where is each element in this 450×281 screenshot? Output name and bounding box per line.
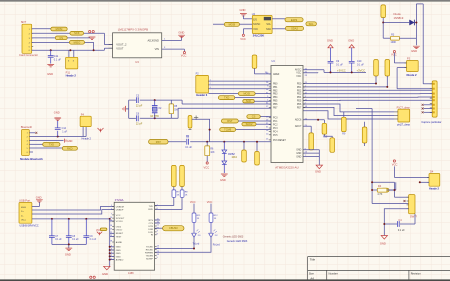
resistor RN B bbox=[343, 112, 345, 117]
svg-text:GND: GND bbox=[67, 140, 73, 143]
resistor RN D bbox=[309, 133, 314, 150]
svg-text:GND: GND bbox=[54, 110, 60, 114]
wire stepped rows to pin27 header bbox=[303, 104, 394, 112]
svg-text:4.7K: 4.7K bbox=[377, 193, 382, 196]
svg-text:PB3: PB3 bbox=[273, 94, 278, 96]
svg-text:AREF: AREF bbox=[273, 73, 280, 76]
svg-text:PC4: PC4 bbox=[273, 131, 278, 133]
connector pin pads bbox=[433, 83, 435, 85]
svg-text:SCK: SCK bbox=[246, 99, 252, 103]
connector capture header bbox=[432, 81, 437, 117]
diode D3 dual bbox=[223, 142, 225, 150]
svg-text:RXD: RXD bbox=[67, 146, 73, 150]
diode D5 bbox=[410, 20, 415, 25]
wire AVCC to rail bbox=[303, 69, 324, 71]
svg-text:VIN: VIN bbox=[155, 47, 159, 51]
svg-text:PD4: PD4 bbox=[297, 97, 302, 99]
svg-text:PD7: PD7 bbox=[297, 108, 302, 110]
wire LED2 return bbox=[155, 238, 211, 253]
svg-text:PB1: PB1 bbox=[273, 87, 278, 89]
wire MOSI net bbox=[32, 28, 67, 30]
svg-text:SDA: SDA bbox=[266, 28, 271, 31]
connector SW1 pushbutton bbox=[409, 195, 415, 214]
svg-text:MOSI: MOSI bbox=[229, 22, 236, 26]
svg-text:RTS: RTS bbox=[149, 220, 154, 222]
svg-text:DCD: DCD bbox=[148, 232, 153, 234]
port U2 right top bbox=[285, 18, 303, 22]
svg-text:PC1: PC1 bbox=[273, 121, 278, 123]
wire USB D- bbox=[32, 207, 114, 211]
svg-text:SLEEP: SLEEP bbox=[146, 258, 154, 260]
port on U2 left bbox=[224, 22, 239, 26]
resistor pullup reset 1 bbox=[243, 142, 245, 150]
wire to U2 NC/SC bbox=[213, 23, 224, 25]
power VCC at U2 bbox=[243, 28, 252, 30]
port SCK2 near MCU bbox=[242, 122, 256, 126]
svg-text:SCK2: SCK2 bbox=[246, 122, 253, 126]
svg-text:GND: GND bbox=[116, 253, 121, 255]
resistor R8 blue bbox=[180, 190, 184, 197]
wire MISO net bbox=[32, 41, 94, 43]
wire reset net bbox=[168, 141, 186, 143]
svg-text:Caprure particular: Caprure particular bbox=[421, 121, 441, 124]
wire U2 SDA net bbox=[272, 28, 285, 30]
ground arrow below FT232 bbox=[104, 266, 110, 270]
svg-text:DSR: DSR bbox=[148, 229, 153, 231]
resistor RN A bbox=[322, 123, 327, 134]
svg-text:16 MHz: 16 MHz bbox=[150, 115, 159, 118]
svg-text:GND: GND bbox=[178, 30, 184, 34]
wire CS net bbox=[32, 37, 90, 39]
wire XTAL2 to MCU bbox=[177, 108, 179, 118]
wire USB shield pin bbox=[32, 206, 40, 208]
capacitor C6b 0.1uF bbox=[51, 219, 53, 236]
svg-text:VCCIO: VCCIO bbox=[116, 221, 123, 223]
header P3 Diode 2 bbox=[407, 61, 419, 72]
svg-text:SD?: SD? bbox=[21, 20, 27, 24]
svg-text:10K2: 10K2 bbox=[232, 157, 238, 159]
wires header3 to MCU bbox=[208, 80, 271, 82]
port left of switch area bbox=[381, 188, 389, 192]
capacitor C11 bbox=[50, 50, 52, 55]
ground for C11 bbox=[47, 65, 54, 67]
port TCM6 near MCU bbox=[220, 128, 236, 132]
port MOSI near MCU bbox=[208, 93, 238, 95]
svg-text:ADC7: ADC7 bbox=[295, 125, 302, 128]
wire connector pin1 from diode bbox=[423, 83, 432, 85]
capacitor C7b 0.1uF bbox=[68, 219, 70, 236]
power antenna symbol bbox=[98, 128, 104, 132]
ground below C4 bbox=[383, 224, 385, 236]
svg-text:Number: Number bbox=[329, 272, 338, 276]
svg-text:VCC: VCC bbox=[392, 162, 398, 166]
svg-text:TXD: TXD bbox=[149, 206, 154, 208]
svg-text:TxLed: TxLed bbox=[193, 242, 200, 245]
svg-text:22 pF: 22 pF bbox=[136, 104, 143, 107]
svg-text:PB6: PB6 bbox=[273, 104, 278, 106]
svg-text:P3: P3 bbox=[407, 57, 411, 61]
power VCC at Diode2 header bbox=[393, 51, 395, 53]
LED D2 bbox=[210, 222, 212, 233]
svg-text:0.1 uF: 0.1 uF bbox=[336, 64, 343, 67]
wire LED1 return bbox=[155, 238, 194, 249]
port MISO bbox=[69, 41, 84, 45]
crystal X2 16MHz bbox=[154, 100, 156, 105]
junction dots crystal bbox=[154, 99, 156, 101]
IC U4 ATMEGA3220-AU bbox=[271, 66, 303, 163]
svg-text:USBDP: USBDP bbox=[116, 210, 124, 212]
svg-text:PC0: PC0 bbox=[273, 118, 278, 120]
port SCL small bbox=[306, 22, 317, 26]
wire XTAL1 to MCU bbox=[181, 100, 183, 104]
svg-text:PD0: PD0 bbox=[297, 83, 302, 85]
wire SCK net bbox=[32, 32, 105, 34]
svg-text:0.1 uF: 0.1 uF bbox=[55, 239, 62, 241]
wire VBUS rail bbox=[32, 218, 110, 220]
svg-text:FT232L: FT232L bbox=[115, 198, 125, 202]
svg-text:ADC6: ADC6 bbox=[295, 119, 302, 122]
svg-text:PD2: PD2 bbox=[297, 90, 302, 92]
svg-text:VOUT: VOUT bbox=[116, 47, 124, 51]
power VCC below R6 bbox=[206, 156, 208, 162]
resistor R3 100K bbox=[391, 36, 400, 40]
resistor tall yellow R8 bbox=[180, 165, 185, 186]
ground GND below diode bbox=[413, 46, 420, 48]
wire U2 WP net bbox=[272, 18, 285, 20]
svg-text:PC2: PC2 bbox=[273, 125, 278, 127]
port U2 right bottom bbox=[285, 26, 303, 30]
svg-text:PD3: PD3 bbox=[297, 94, 302, 96]
resistor R4 bbox=[377, 188, 387, 192]
svg-text:RESET: RESET bbox=[116, 233, 124, 235]
svg-text:0.1 uF: 0.1 uF bbox=[398, 229, 405, 232]
port CBUS bbox=[155, 227, 163, 229]
svg-text:GND: GND bbox=[380, 242, 386, 246]
svg-text:P1C?_deep: P1C?_deep bbox=[397, 106, 411, 109]
wire switch top net bbox=[372, 181, 394, 183]
svg-text:Generic LED 0603: Generic LED 0603 bbox=[227, 240, 248, 243]
svg-text:PB0: PB0 bbox=[273, 83, 278, 85]
svg-text:USB Port: USB Port bbox=[19, 199, 30, 203]
wire R3 branch bbox=[382, 23, 384, 39]
svg-text:CTS: CTS bbox=[149, 223, 154, 225]
cross mark bbox=[194, 116, 198, 120]
svg-text:22 pF: 22 pF bbox=[136, 122, 143, 125]
svg-text:Size: Size bbox=[309, 272, 315, 276]
svg-text:RST: RST bbox=[156, 140, 162, 144]
resistor pullup reset 2 bbox=[256, 142, 258, 152]
small port left of FT232 bbox=[100, 228, 107, 231]
wire bluetooth pin4 bbox=[29, 143, 42, 145]
capacitor C5 0.1uF bbox=[187, 139, 189, 145]
svg-text:+3VCC: +3VCC bbox=[357, 69, 366, 73]
voltage regulator U3 LM1117MPX-3.3/NOPB bbox=[113, 33, 162, 58]
port SCK near MCU bbox=[243, 100, 255, 103]
wire PD bus rows right bbox=[303, 83, 376, 85]
svg-text:VCC: VCC bbox=[240, 37, 246, 41]
svg-text:DTR: DTR bbox=[149, 226, 154, 228]
svg-text:TXLED: TXLED bbox=[146, 247, 153, 249]
svg-text:0.1 uF: 0.1 uF bbox=[357, 64, 364, 67]
port CS near MCU bbox=[247, 115, 260, 119]
svg-text:NC/SC: NC/SC bbox=[253, 24, 260, 26]
svg-text:0.1 uF: 0.1 uF bbox=[72, 239, 79, 241]
ground left of crystal bbox=[126, 108, 129, 110]
svg-text:VCC: VCC bbox=[204, 166, 210, 170]
svg-text:GND: GND bbox=[296, 153, 301, 155]
ground GND below MCU bbox=[316, 165, 322, 169]
svg-text:1N5819: 1N5819 bbox=[394, 16, 404, 20]
port CS bbox=[55, 36, 67, 40]
svg-text:SCK: SCK bbox=[74, 31, 80, 35]
wire MCU GND pins bbox=[303, 149, 319, 151]
svg-text:USBDM: USBDM bbox=[116, 206, 124, 208]
svg-text:PC6 RESET: PC6 RESET bbox=[273, 140, 286, 142]
resistor R5 bbox=[169, 104, 173, 114]
svg-text:GND: GND bbox=[327, 38, 333, 42]
svg-text:PB7: PB7 bbox=[273, 108, 278, 110]
wire VIN rail bbox=[32, 49, 105, 51]
svg-text:PD6: PD6 bbox=[297, 104, 302, 106]
header P11 Header 2 bbox=[68, 50, 70, 57]
resistor R11 blue bbox=[192, 213, 196, 222]
wire USB D+ bbox=[32, 210, 114, 214]
svg-text:PC3: PC3 bbox=[273, 128, 278, 130]
wire bluetooth pin2 to header bbox=[29, 136, 86, 138]
svg-text:D4: D4 bbox=[430, 169, 434, 173]
wire ADJ/GND pin 1 bbox=[162, 39, 182, 41]
wire Diode2 pin2 bbox=[397, 67, 406, 69]
red circles bottom bbox=[90, 276, 92, 278]
svg-text:GND: GND bbox=[220, 178, 226, 182]
svg-text:Heade 2: Heade 2 bbox=[66, 74, 77, 78]
svg-text:LM1117MPX-3.3/NOPB: LM1117MPX-3.3/NOPB bbox=[118, 27, 148, 31]
IC U2 24LC256 bbox=[252, 16, 272, 34]
wire FT232 RXD to R8 bbox=[155, 197, 182, 209]
svg-text:MOSI: MOSI bbox=[56, 27, 63, 31]
svg-text:CS: CS bbox=[252, 115, 256, 119]
wire cap ground rail bbox=[52, 243, 86, 245]
svg-text:CS: CS bbox=[59, 36, 63, 40]
svg-text:U3: U3 bbox=[135, 60, 139, 64]
svg-text:Diode 2: Diode 2 bbox=[407, 73, 418, 77]
svg-text:VCC: VCC bbox=[253, 29, 258, 31]
svg-text:P4: P4 bbox=[81, 112, 85, 116]
ground below D3 bbox=[221, 174, 228, 176]
svg-text:PD1: PD1 bbox=[297, 87, 302, 89]
resistor RN C bbox=[324, 134, 332, 138]
svg-text:AGND: AGND bbox=[116, 241, 123, 244]
svg-text:SDA2: SDA2 bbox=[291, 26, 298, 30]
svg-text:VCC: VCC bbox=[190, 200, 196, 204]
port MOSI bbox=[51, 27, 67, 31]
svg-text:MMBZ: MMBZ bbox=[228, 154, 235, 156]
stub bluetooth pin6 bbox=[29, 151, 33, 153]
svg-text:TXD: TXD bbox=[49, 142, 54, 146]
svg-text:PD5: PD5 bbox=[297, 101, 302, 103]
resistor R pullup 2 bbox=[385, 60, 390, 77]
svg-text:R10: R10 bbox=[323, 137, 328, 139]
svg-text:CBUS3: CBUS3 bbox=[169, 226, 178, 230]
svg-text:4B-B: 4B-B bbox=[21, 207, 26, 209]
svg-text:ATMEGA3220-AU: ATMEGA3220-AU bbox=[275, 166, 298, 170]
svg-text:PWREN: PWREN bbox=[145, 252, 154, 254]
svg-text:E2P2: E2P2 bbox=[291, 18, 298, 22]
port TX0 bbox=[218, 96, 234, 100]
capacitor C6 22pF bbox=[129, 117, 136, 119]
wire bluetooth pin5 bbox=[29, 147, 62, 149]
svg-text:TXDEN: TXDEN bbox=[146, 255, 154, 257]
bottom window edge bbox=[0, 279, 450, 281]
svg-text:RXD: RXD bbox=[148, 209, 153, 211]
svg-text:0.1 uF: 0.1 uF bbox=[185, 146, 192, 149]
svg-text:E/S: E/S bbox=[253, 20, 257, 22]
svg-text:GND: GND bbox=[47, 72, 53, 76]
svg-text:GND: GND bbox=[116, 247, 121, 249]
svg-text:100K: 100K bbox=[391, 41, 397, 44]
resistor reset pullup near crystal bbox=[188, 116, 192, 129]
port RST reset circuit bbox=[149, 140, 169, 145]
svg-text:TEST: TEST bbox=[116, 236, 122, 238]
svg-text:Bluetooth: Bluetooth bbox=[21, 125, 33, 129]
wire ADC6 bbox=[303, 119, 324, 121]
no-connect stubs on connector bbox=[424, 104, 433, 106]
svg-text:TXD: TXD bbox=[224, 96, 229, 100]
wire from pullup down to reset net bbox=[192, 119, 210, 142]
svg-text:GND: GND bbox=[240, 8, 246, 12]
svg-text:SCL: SCL bbox=[266, 24, 271, 26]
wire D4 pin2 bbox=[420, 181, 429, 183]
wire FT232 TXD to R7 bbox=[155, 197, 174, 205]
wire crystal left vertical bbox=[128, 100, 130, 118]
svg-text:MISO: MISO bbox=[74, 40, 81, 44]
svg-text:GND: GND bbox=[116, 256, 121, 258]
svg-text:Heade 2: Heade 2 bbox=[82, 138, 92, 141]
svg-text:Revision: Revision bbox=[411, 272, 422, 276]
wire ADC7 bbox=[303, 125, 311, 127]
svg-text:pin27_deep: pin27_deep bbox=[397, 124, 411, 127]
svg-text:GND: GND bbox=[102, 272, 108, 276]
port SCK bbox=[70, 31, 84, 35]
header P4 Header 2 bluetooth bbox=[80, 116, 91, 126]
wire switch pin4 to cap bbox=[384, 209, 408, 224]
header pin27_deep bbox=[398, 109, 410, 122]
port RST near MCU bbox=[221, 119, 238, 123]
resistor R1 vertical bbox=[381, 5, 386, 18]
svg-text:PB2: PB2 bbox=[273, 90, 278, 92]
svg-text:0.1 uF: 0.1 uF bbox=[54, 59, 62, 62]
svg-text:AGND2: AGND2 bbox=[116, 259, 124, 262]
ground bus left of FT232 bbox=[109, 219, 111, 266]
svg-text:GND: GND bbox=[65, 252, 71, 256]
svg-text:SCL: SCL bbox=[309, 22, 315, 26]
pin arrows U3 left bbox=[109, 44, 113, 46]
svg-text:PB4: PB4 bbox=[273, 97, 278, 99]
capacitor C10 0.1uF bbox=[349, 61, 355, 63]
top window edge bbox=[0, 0, 450, 1]
wire long vertical to switch bbox=[356, 108, 372, 110]
svg-text:GND: GND bbox=[296, 156, 301, 158]
svg-text:MOSI: MOSI bbox=[243, 92, 250, 96]
svg-text:Title: Title bbox=[310, 257, 316, 261]
svg-text:1M: 1M bbox=[174, 110, 177, 112]
resistor R12 blue bbox=[209, 213, 213, 222]
svg-text:Module Bluetooth: Module Bluetooth bbox=[20, 157, 43, 161]
svg-text:RXLED: RXLED bbox=[146, 249, 154, 251]
wires FT232 OSC pins bbox=[110, 232, 115, 234]
svg-text:VCC: VCC bbox=[116, 215, 121, 217]
wire switch pin3 bbox=[372, 203, 409, 205]
wire FT232 right misc bbox=[155, 219, 160, 221]
power VCC at U3 bbox=[183, 49, 185, 52]
svg-text:GND: GND bbox=[36, 195, 42, 199]
capacitor C9 0.1uF bbox=[328, 61, 334, 63]
svg-text:Card Connector: Card Connector bbox=[19, 53, 38, 57]
capacitor C8b 0.1uF bbox=[85, 219, 87, 236]
resistor AREF vertical bbox=[252, 55, 257, 68]
wire VCC pin bbox=[303, 72, 318, 74]
svg-text:D-: D- bbox=[21, 215, 24, 217]
wire diode loop top bbox=[415, 4, 417, 45]
svg-text:GND: GND bbox=[348, 38, 354, 42]
port RXD bluetooth bbox=[62, 147, 77, 151]
svg-text:PB5: PB5 bbox=[273, 101, 278, 103]
ground below caps bbox=[65, 248, 72, 250]
svg-text:Header 3: Header 3 bbox=[196, 93, 208, 97]
svg-text:TCM6: TCM6 bbox=[224, 128, 232, 132]
LED D1 bbox=[193, 222, 195, 233]
svg-text:1 uF: 1 uF bbox=[62, 130, 67, 133]
ground GND at U3 bbox=[181, 37, 183, 41]
power GND on CS net bbox=[89, 31, 91, 33]
svg-text:Heade 2: Heade 2 bbox=[429, 186, 440, 190]
svg-text:OSCI: OSCI bbox=[116, 226, 122, 228]
svg-text:0.1 uF: 0.1 uF bbox=[90, 239, 97, 241]
svg-text:USB-B-5/RA/VCC: USB-B-5/RA/VCC bbox=[20, 225, 39, 228]
svg-text:GND: GND bbox=[315, 170, 321, 174]
wire VIN pin 3 bbox=[162, 48, 185, 50]
svg-text:VCC: VCC bbox=[296, 75, 301, 78]
svg-text:VOUT_2: VOUT_2 bbox=[116, 43, 127, 47]
svg-text:3V3OUT: 3V3OUT bbox=[116, 218, 125, 220]
resistor R7 blue bbox=[172, 190, 176, 197]
svg-text:OSCO: OSCO bbox=[116, 230, 123, 232]
resistor tall yellow R7 bbox=[172, 165, 177, 186]
ground on bluetooth pin3 bbox=[29, 139, 63, 141]
svg-text:+3VCC: +3VCC bbox=[337, 69, 346, 73]
title block bbox=[308, 257, 450, 281]
svg-text:VCC: VCC bbox=[181, 53, 187, 57]
no-connect switch pin2 bbox=[404, 200, 406, 202]
svg-text:ADJ/GND: ADJ/GND bbox=[148, 38, 160, 42]
wire diode anode bbox=[383, 22, 409, 24]
ground above C14 bbox=[54, 118, 61, 120]
resistor R6 10K bbox=[206, 142, 208, 146]
power VCC for D4 bbox=[393, 160, 395, 162]
resistor R pullup 1 bbox=[374, 60, 379, 77]
power VCC at FT232 left bbox=[97, 232, 102, 236]
svg-text:GND: GND bbox=[116, 250, 121, 252]
header P2 Header 3 bbox=[196, 75, 209, 93]
connector SD1 card connector bbox=[22, 24, 32, 53]
svg-text:24LC256: 24LC256 bbox=[253, 34, 265, 38]
svg-text:VCC: VCC bbox=[391, 53, 397, 57]
svg-text:SW??: SW?? bbox=[410, 214, 418, 218]
wire +3VCC rail bbox=[324, 71, 366, 73]
svg-text:RxLed: RxLed bbox=[213, 244, 221, 247]
svg-text:GND: GND bbox=[411, 49, 417, 53]
header D4 Header 2 bbox=[429, 174, 440, 187]
